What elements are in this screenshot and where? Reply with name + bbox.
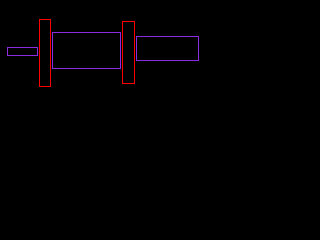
right lead (violet rectangle) (136, 36, 199, 61)
component body (center violet rectangle) (52, 32, 121, 69)
left lead (small violet rectangle) (7, 47, 38, 56)
left end cap (red rectangle) (39, 19, 51, 87)
right end cap (red rectangle) (122, 21, 135, 84)
